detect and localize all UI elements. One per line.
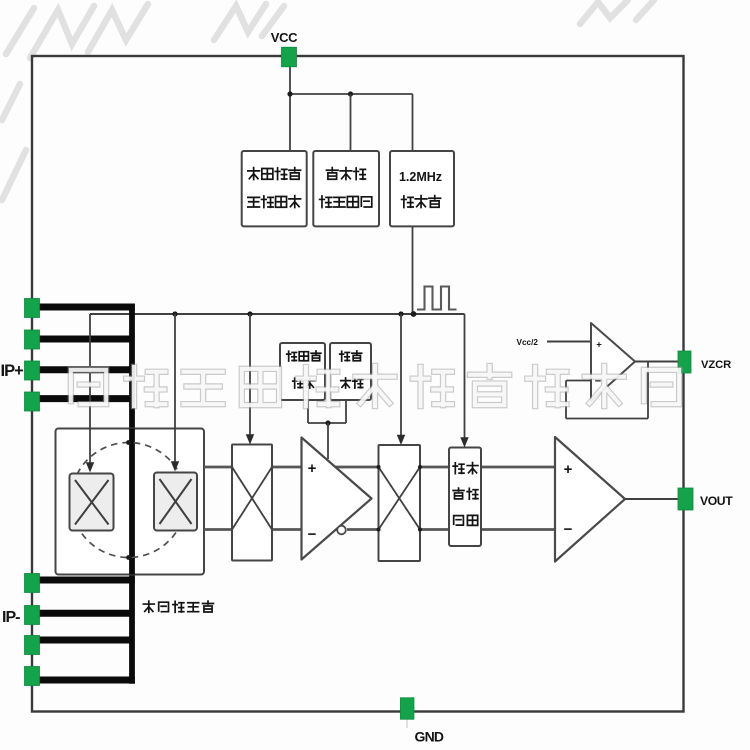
pad VOUT <box>678 488 693 510</box>
junction oscillator feed <box>411 311 417 317</box>
hall element H1 <box>70 474 114 531</box>
thick primary conductor bar 6 <box>32 610 131 617</box>
thick primary conductor bar 4 <box>32 395 131 402</box>
wire oscillator output drop <box>412 226 414 314</box>
thick primary conductor bar 1 <box>32 304 135 311</box>
watermark text row <box>71 366 679 406</box>
hall plate assembly box <box>56 429 205 575</box>
op-amp A1 <box>302 438 372 560</box>
thick primary conductor bar 8 <box>32 677 135 684</box>
junction at VCC drop <box>287 91 292 96</box>
chopper X1 <box>232 445 272 561</box>
pad GND <box>400 698 414 720</box>
op-amp A3 comparator <box>591 323 635 401</box>
op-amp A2 output amplifier <box>555 437 625 562</box>
block U4 sensitivity adjust <box>280 343 325 400</box>
block U3 1.2MHz oscillator <box>390 151 454 226</box>
wire clock bus corner to filter block <box>464 314 466 439</box>
wire U5 output drop <box>345 400 347 423</box>
junction X2 top-right <box>418 465 422 469</box>
dashed rotation circle <box>71 443 186 558</box>
svg-text:Vcc/2: Vcc/2 <box>517 338 539 347</box>
junction trim node <box>325 420 330 425</box>
wire rail bottom segment bubble-to-X2 <box>347 528 379 531</box>
wire drive to chopper X2 <box>400 314 402 437</box>
wire rail top segment A1-to-X2 <box>335 466 378 469</box>
pad GND stub <box>406 719 408 728</box>
clock waveform symbol <box>417 287 457 310</box>
wire drop to bias block <box>350 94 352 152</box>
wire trim bracket horizontal <box>308 422 346 424</box>
wire rail bottom segment U6-to-A2 <box>481 528 555 531</box>
thick primary conductor bar 7 <box>32 637 131 644</box>
wire rail bottom segment X2-to-U6 <box>420 528 449 531</box>
svg-text:IP-: IP- <box>2 609 20 626</box>
svg-text:1.2MHz: 1.2MHz <box>399 170 442 184</box>
wire rail top segment X1-to-A1 <box>272 466 302 469</box>
wire A2 output to VOUT <box>625 498 678 500</box>
svg-text:+: + <box>596 340 602 351</box>
thick primary conductor vertical bar <box>129 304 135 684</box>
junction chopper2 drive <box>398 311 403 316</box>
svg-text:+: + <box>564 461 573 478</box>
pad IP- 3 <box>25 636 40 655</box>
pad IP- 1 <box>25 574 40 593</box>
pad IP- 4 <box>25 667 40 686</box>
svg-text:−: − <box>564 521 573 538</box>
pad IP+ 2 <box>25 330 40 349</box>
wire trim into A1 <box>327 423 329 459</box>
wire rail top segment hall-to-X1 <box>204 466 232 469</box>
svg-text:+: + <box>308 460 317 477</box>
pad VCC <box>282 47 297 67</box>
wire rail top segment U6-to-A2 <box>481 466 555 469</box>
block U1 undervoltage-protect / power-on-reset <box>242 151 307 226</box>
svg-text:GND: GND <box>415 729 444 745</box>
thick primary conductor bar 2 <box>32 336 131 343</box>
wire rail top segment X2-to-U6 <box>420 466 449 469</box>
wire A3 feedback right vertical <box>647 362 649 419</box>
junction X2 bottom-right <box>418 528 422 532</box>
wire drop to oscillator block <box>412 94 414 152</box>
wire U4 output drop <box>307 400 309 423</box>
junction chopper1 drive <box>247 311 252 316</box>
thick primary conductor bar 5 <box>32 577 135 584</box>
svg-text:−: − <box>308 526 317 543</box>
junction X2 bottom-left <box>377 528 381 532</box>
junction circle top <box>126 440 131 445</box>
junction X2 top-left <box>377 465 381 469</box>
wire Vcc/2 into A3 <box>547 341 591 343</box>
wire top supply bus <box>290 93 413 95</box>
junction hall drive 2 <box>172 311 177 316</box>
wire A3 feedback left vertical <box>565 381 567 419</box>
IC boundary box <box>32 56 684 712</box>
wire VCC vertical drop <box>289 67 291 152</box>
wire drive to chopper X1 <box>249 314 251 436</box>
wire drive to hall element H2 <box>174 314 176 463</box>
chopper X2 <box>379 445 421 561</box>
svg-text:VOUT: VOUT <box>700 494 733 508</box>
wire rail bottom segment hall-to-X1 <box>204 528 232 531</box>
wire drive to hall element H1 <box>89 314 91 464</box>
wire rail bottom segment X1-to-A1 <box>272 528 302 531</box>
wire A3 inverting input <box>566 380 591 382</box>
wire A3 feedback bottom horizontal <box>566 418 648 420</box>
block U6 filter sample-hold buffer <box>449 448 481 547</box>
junction circle bottom <box>126 555 131 560</box>
inversion bubble on A1 <box>337 526 346 535</box>
thick primary conductor bar 3 <box>32 366 131 373</box>
hall element H2 <box>154 473 197 531</box>
wire clock bus horizontal <box>90 313 465 315</box>
svg-text:IP+: IP+ <box>1 362 24 380</box>
svg-text:VCC: VCC <box>271 30 298 45</box>
pad IP+ 3 <box>25 361 40 380</box>
block U2 reference / current-bias <box>313 151 379 226</box>
pad IP- 2 <box>25 606 40 625</box>
pad VZCR <box>678 351 691 373</box>
thick conductor inside hall box (redraw over box) <box>129 429 135 575</box>
watermark corner strokes top-left <box>2 0 654 200</box>
junction at bias drop <box>348 91 353 96</box>
block U5 temperature compensation <box>330 343 371 400</box>
wire A3 output to VZCR <box>635 361 678 363</box>
pad IP+ 4 <box>25 392 40 411</box>
svg-text:VZCR: VZCR <box>701 359 731 371</box>
pad IP+ 1 <box>25 299 40 318</box>
label differential hall plate <box>143 601 154 612</box>
